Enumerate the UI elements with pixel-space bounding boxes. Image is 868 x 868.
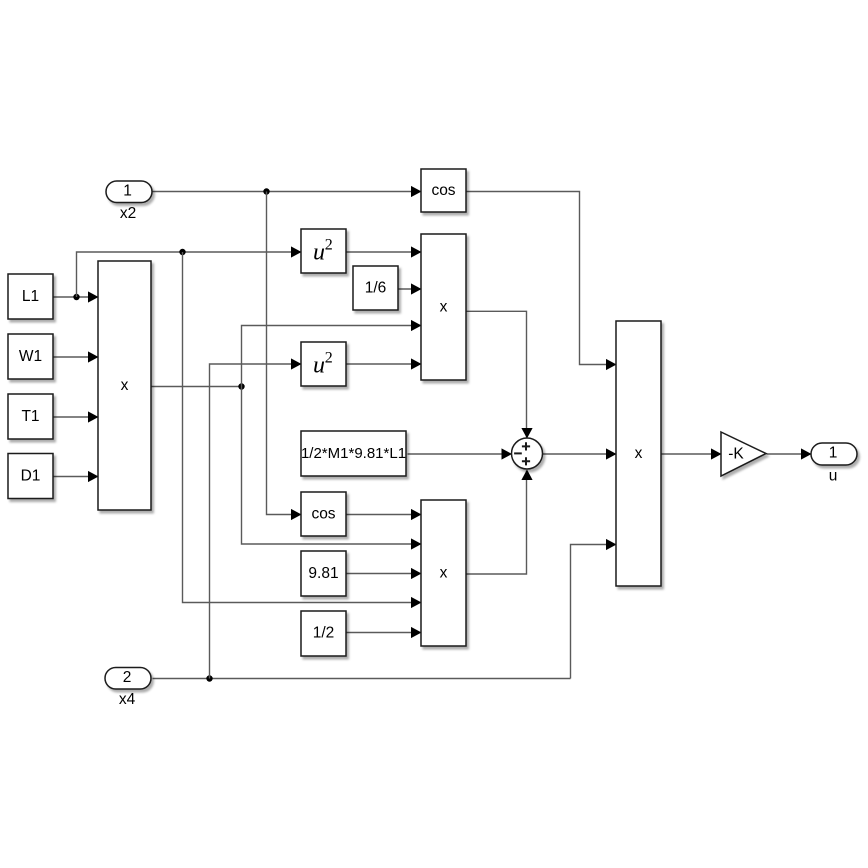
svg-text:9.81: 9.81 <box>308 565 338 582</box>
svg-text:W1: W1 <box>19 348 42 365</box>
wire cos to big product input1 <box>467 192 617 371</box>
svg-text:x: x <box>440 298 448 315</box>
svg-text:cos: cos <box>311 505 335 522</box>
svg-text:1/6: 1/6 <box>365 279 387 296</box>
junction product-left node <box>238 383 244 389</box>
wire product1 output to sum top <box>467 311 533 438</box>
product block right <box>616 321 661 586</box>
constant D1 <box>8 454 53 499</box>
sum block <box>512 438 543 469</box>
product block left <box>98 261 151 510</box>
svg-text:-K: -K <box>728 446 744 463</box>
inport 2 x4 <box>105 668 151 709</box>
math function u2 upper <box>301 229 346 273</box>
trigonometric function cos upper <box>421 169 466 212</box>
product block 1 <box>421 234 466 380</box>
wire x4 up to big product input3 <box>571 539 617 679</box>
junction u2-row node <box>179 249 185 255</box>
svg-text:u: u <box>313 352 325 378</box>
wire u2a to product1 input1 <box>347 246 422 257</box>
constant 1/6 <box>353 266 398 310</box>
svg-text:x: x <box>635 445 643 462</box>
constant T1 <box>8 394 53 439</box>
svg-text:2: 2 <box>123 669 132 686</box>
wire x2 to cos <box>153 186 422 197</box>
gain -K <box>721 432 766 476</box>
wire constant to sum left <box>408 448 513 459</box>
wire cos2 to product2 input1 <box>347 509 422 520</box>
wire node up to product1 input3 <box>242 320 422 387</box>
constant L1 <box>8 274 53 319</box>
svg-text:2: 2 <box>325 350 333 367</box>
product block 2 <box>421 500 466 646</box>
math function u2 lower <box>301 342 346 386</box>
junction L1 node <box>73 294 79 300</box>
wire node down to product2 input2 <box>242 387 422 550</box>
svg-text:cos: cos <box>431 182 455 199</box>
wire x4 line <box>153 678 571 680</box>
svg-text:x2: x2 <box>120 205 136 222</box>
constant 9.81 <box>301 551 346 596</box>
wire 1/6 to product1 input2 <box>399 283 422 294</box>
constant W1 <box>8 334 53 379</box>
wire x4 up to u2b <box>210 358 302 678</box>
wire W1 output <box>54 351 99 362</box>
outport 1 u <box>811 443 857 485</box>
wire sum to big product input2 <box>543 448 617 459</box>
svg-text:L1: L1 <box>22 288 39 305</box>
inport 1 x2 <box>106 181 152 222</box>
wire product2 output to sum bottom <box>467 470 533 575</box>
svg-text:x4: x4 <box>119 691 136 708</box>
wire D1 output <box>54 471 99 482</box>
svg-text:x: x <box>440 564 448 581</box>
wire big product to gain <box>662 448 722 459</box>
svg-text:T1: T1 <box>21 408 39 425</box>
wire L1 output <box>54 291 99 302</box>
junction x2 node <box>263 188 269 194</box>
svg-text:D1: D1 <box>21 467 41 484</box>
svg-text:2: 2 <box>325 237 333 254</box>
wire gain to outport <box>767 448 812 459</box>
junction x4 node <box>206 675 212 681</box>
constant 1/2 <box>301 611 346 656</box>
svg-text:x: x <box>121 377 129 394</box>
wire x2 down to cos2 <box>267 192 302 521</box>
wire product-left output <box>152 386 242 388</box>
svg-text:u: u <box>313 239 325 265</box>
wire 9.81 to product2 input3 <box>347 568 422 579</box>
svg-text:u: u <box>829 468 838 485</box>
trigonometric function cos lower <box>301 492 346 536</box>
wire T1 output <box>54 411 99 422</box>
svg-text:1: 1 <box>123 182 132 199</box>
wire L1 up to u2 row <box>77 246 302 297</box>
svg-text:1/2*M1*9.81*L1: 1/2*M1*9.81*L1 <box>301 445 406 462</box>
wire 1/2 to product2 input5 <box>347 627 422 638</box>
svg-text:1: 1 <box>829 445 838 462</box>
svg-text:1/2: 1/2 <box>313 625 335 642</box>
wire node down to product2 input4 <box>183 252 422 608</box>
wire u2b to product1 input4 <box>347 358 422 369</box>
constant 1/2*M1*9.81*L1 <box>301 431 406 476</box>
